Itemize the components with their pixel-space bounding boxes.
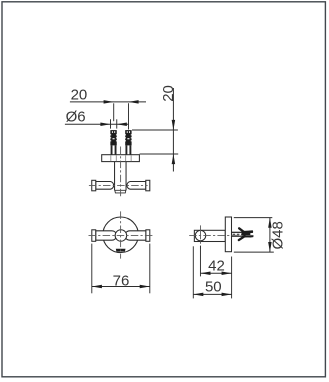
- extension line left (50, hook outer): [192, 246, 194, 298]
- dim line Ø6: [65, 123, 128, 125]
- arrow up (20 right bottom): [172, 154, 176, 164]
- arrow left (42): [200, 271, 210, 275]
- svg-text:Ø48: Ø48: [270, 221, 287, 249]
- bar right segment (front): [125, 231, 146, 240]
- extension line screw2 center: [128, 103, 130, 129]
- dim line 20 top: [70, 101, 146, 103]
- anchor tip bottom prong: [248, 235, 253, 238]
- wall plate (side): [225, 217, 231, 252]
- bar left end cap (top view): [92, 180, 96, 191]
- vertical centerline (top view): [120, 147, 122, 199]
- connector line at plate top level: [140, 153, 179, 155]
- hub flare below bar (top view): [115, 190, 126, 193]
- screw stud S2 shank legs: [125, 145, 131, 154]
- center boss circle (front): [115, 230, 127, 242]
- dim line 76: [92, 286, 150, 288]
- extension tick right edge: [116, 119, 118, 128]
- hook arm (side): [194, 230, 225, 241]
- anchor expansion arms: [239, 228, 245, 240]
- extension line top (Ø48): [234, 217, 272, 219]
- dim line Ø48 (vertical): [269, 218, 271, 253]
- horizontal centerline (top view bar): [89, 184, 148, 186]
- arrow up (Ø48): [268, 218, 272, 228]
- arrow right (20 top): [129, 100, 139, 104]
- dim line 20 right (vertical): [172, 88, 174, 172]
- screw stud S1 body: [110, 130, 116, 145]
- screw stud S2 body: [125, 130, 131, 145]
- arrow right (42): [222, 271, 232, 275]
- vertical centerline (front): [120, 211, 122, 258]
- arrow right (76): [140, 285, 150, 289]
- arrow right (50): [222, 293, 232, 297]
- extension line bottom (Ø48): [234, 251, 274, 253]
- bar left segment (top view): [96, 182, 114, 190]
- bar right segment (top view): [127, 182, 146, 190]
- bar right end cap (top view): [146, 180, 150, 191]
- bar right end cap (front): [146, 230, 150, 242]
- stem / hub sides (top view): [115, 162, 127, 191]
- extension line right (76): [149, 244, 151, 294]
- extension line right (shared wall face): [231, 257, 233, 299]
- svg-text:20: 20: [71, 87, 88, 104]
- bar left segment (front): [96, 231, 117, 240]
- hook end circle (side): [195, 230, 205, 240]
- extension line left (76): [91, 244, 93, 294]
- screw stud S1 shank legs: [111, 145, 117, 154]
- side horizontal centerline: [189, 235, 254, 237]
- extension line screw1 center: [113, 103, 115, 121]
- svg-text:Ø6: Ø6: [66, 108, 86, 125]
- anchor screw body: [242, 231, 251, 238]
- side vertical crosshair on hook circle: [200, 225, 202, 248]
- arrow left (76): [92, 285, 102, 289]
- dim line 42: [200, 272, 231, 274]
- svg-text:42: 42: [208, 257, 225, 274]
- anchor tip top prong: [249, 230, 253, 233]
- extension tick left edge: [110, 119, 112, 128]
- arrow down (20 right top): [172, 120, 176, 130]
- arrow left (20 top): [104, 100, 114, 104]
- screw holes through plate: [111, 155, 131, 161]
- arrow down (Ø48): [268, 242, 272, 252]
- arrow left (Ø6): [100, 122, 110, 126]
- arrow right (Ø6): [117, 122, 127, 126]
- wall plate (top view): [102, 155, 140, 162]
- svg-text:20: 20: [160, 85, 177, 102]
- dim line 50: [193, 293, 231, 295]
- extension line left (42, hook center): [199, 246, 201, 277]
- arrow left (50): [193, 293, 203, 297]
- anchor screw centerline dashes: [233, 233, 243, 235]
- svg-text:50: 50: [205, 279, 222, 296]
- horizontal centerline (front): [89, 235, 153, 237]
- connector line at screw top level: [132, 129, 178, 131]
- anchor screw shank lines: [232, 232, 244, 236]
- bar left end cap (front): [92, 230, 96, 242]
- backplate circle Ø48: [103, 217, 139, 253]
- set screw mark (front bottom): [116, 249, 126, 252]
- svg-text:76: 76: [113, 272, 130, 289]
